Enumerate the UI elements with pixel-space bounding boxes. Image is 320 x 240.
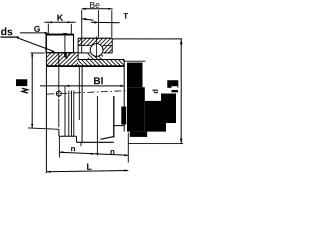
body left face and L extension bbox=[45, 35, 47, 174]
dimension n line bbox=[60, 152, 129, 155]
staircase vertical x59 bbox=[58, 129, 60, 136]
sleeve step edge bbox=[77, 53, 79, 60]
black seal bar on body bbox=[121, 107, 126, 125]
small tick below bottom bbox=[80, 142, 82, 146]
left dimension bottom extension bbox=[28, 128, 59, 129]
V notch strokes bbox=[64, 53, 67, 59]
outer ring top edge bbox=[78, 37, 112, 39]
left diameter dimension line bbox=[31, 53, 33, 128]
leader line from ds to collar corner bbox=[17, 37, 54, 51]
outer ring bottom left bbox=[78, 52, 90, 54]
svg-text:L: L bbox=[86, 162, 92, 172]
dimension K line bbox=[45, 21, 76, 23]
lower body collar silhouette line c bbox=[70, 90, 72, 135]
label D rotated blob bbox=[167, 80, 178, 88]
outer ring right edge bbox=[111, 38, 113, 53]
bore line bbox=[46, 65, 124, 67]
sleeve top surface right bbox=[78, 58, 124, 60]
vertical dimension line phi d1 bbox=[58, 35, 60, 90]
set screw top tick bbox=[63, 33, 67, 35]
dimension Be line bbox=[82, 8, 113, 10]
left dimension top extension bbox=[31, 52, 45, 54]
eccentric collar black slab 1 bbox=[127, 63, 143, 88]
outer ring left edge bbox=[77, 38, 79, 53]
top extension line to right D dimension bbox=[112, 38, 182, 40]
dimension D vertical line right bbox=[180, 39, 182, 144]
staircase step y134 bbox=[59, 135, 77, 137]
inner ring hump hatch under ball bbox=[88, 53, 103, 60]
horizontal centerline bbox=[47, 91, 128, 95]
left dimension label blob bbox=[16, 79, 27, 86]
lower body collar silhouette line b bbox=[68, 90, 70, 136]
svg-text:G: G bbox=[34, 24, 41, 34]
ball centerline bbox=[96, 36, 98, 57]
dimension T line right part bbox=[91, 21, 120, 24]
svg-text:T: T bbox=[123, 12, 128, 21]
right piece outline top edge bbox=[124, 60, 145, 62]
leader line from G bbox=[20, 32, 46, 34]
outer ring right shoulder hatch bbox=[103, 46, 113, 53]
sleeve top edge under collar bbox=[46, 52, 78, 54]
set screw centerline in collar bbox=[64, 33, 66, 53]
dimension Bl line bbox=[40, 85, 124, 87]
outer ring inner surface left bbox=[78, 45, 90, 47]
eccentric collar black slab 2 lower part bbox=[145, 101, 166, 132]
K extension line right bbox=[70, 24, 72, 35]
svg-text:n: n bbox=[110, 147, 115, 156]
n extension vertical x98 bbox=[96, 96, 98, 155]
set screw dot bbox=[64, 53, 66, 58]
svg-text:n: n bbox=[71, 144, 76, 153]
outer ring silhouette left edge a bbox=[78, 66, 80, 120]
Be extension line right bbox=[111, 10, 113, 37]
outer ring silhouette left edge b bbox=[81, 66, 83, 142]
n right extension bbox=[127, 133, 129, 163]
svg-text:ds: ds bbox=[1, 26, 13, 38]
ball bbox=[90, 44, 103, 57]
inner sleeve hatch left bbox=[46, 53, 78, 66]
eccentric collar black slab 1 lower wide part bbox=[127, 87, 145, 131]
V notch white bbox=[64, 52, 70, 58]
lower body collar silhouette line d bbox=[73, 90, 75, 136]
left dimension label z-mark bbox=[22, 88, 28, 93]
inner sleeve hatch right bbox=[78, 59, 124, 65]
svg-text:K: K bbox=[57, 13, 64, 23]
collar rectangle bbox=[46, 35, 74, 53]
T extension line bbox=[97, 10, 99, 37]
body right step horizontal bbox=[114, 125, 124, 127]
dimension L line bbox=[47, 170, 128, 171]
body bottom upper line bbox=[100, 137, 113, 140]
eccentric collar black bottom tab bbox=[130, 132, 147, 137]
Be extension line left bbox=[81, 10, 83, 53]
outer ring inner surface right bbox=[103, 45, 113, 47]
eccentric collar black slab 2 bbox=[161, 94, 176, 124]
body right step vertical bbox=[113, 96, 115, 138]
n left extension bbox=[58, 136, 60, 157]
body bottom edge bbox=[76, 141, 113, 143]
step vertical x76.5 bbox=[75, 136, 77, 142]
outer ring bottom right bbox=[103, 52, 112, 54]
bottom extension line of D dimension bbox=[128, 143, 183, 145]
K extension line left bbox=[47, 24, 49, 41]
phi symbol bbox=[56, 91, 61, 96]
underline of ds bbox=[1, 36, 20, 38]
dimension T line bbox=[82, 19, 94, 20]
lower body collar silhouette line a bbox=[64, 86, 66, 136]
svg-text:d: d bbox=[151, 89, 160, 94]
outer ring hatch bbox=[78, 38, 112, 45]
right piece outline left edge bbox=[123, 60, 125, 132]
collar top edge thick bbox=[46, 34, 74, 36]
